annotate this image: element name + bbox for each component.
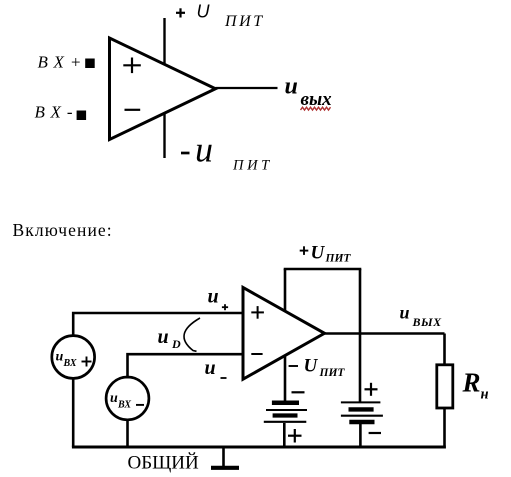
wire +V top horizontal <box>284 268 362 271</box>
svg-text:ПИТ: ПИТ <box>224 13 265 30</box>
source uВХ+ circle <box>52 336 95 379</box>
svg-text:ОБЩИЙ: ОБЩИЙ <box>128 453 200 474</box>
svg-text:ПИТ: ПИТ <box>319 367 346 379</box>
label -u ПИТ (top) <box>181 130 273 174</box>
battery GB2 (right, +Uпит supply) <box>341 402 383 422</box>
label + U ПИТ (top) <box>176 2 265 30</box>
wire resistor top <box>443 334 446 366</box>
svg-text:вых: вых <box>301 89 333 110</box>
svg-text:u: u <box>195 130 213 170</box>
label u- (inverting input) <box>205 357 227 379</box>
label u+ (non-inverting input) <box>208 286 229 311</box>
wire -V pin down from op-amp to battery GB1 <box>284 356 287 402</box>
input terminal square ВХ- <box>77 111 87 121</box>
ground symbol <box>211 447 239 468</box>
svg-text:u: u <box>285 74 298 100</box>
label u ВЫХ (output) <box>400 303 443 330</box>
wire source 2 bottom <box>126 419 129 448</box>
svg-text:U: U <box>197 2 211 22</box>
input terminal square ВХ+ <box>85 59 95 69</box>
svg-text:ПИТ: ПИТ <box>232 158 273 174</box>
op-amp A1 (bottom figure) <box>243 288 325 380</box>
svg-text:ВХ: ВХ <box>63 358 77 369</box>
label +Uпит (bottom) <box>300 243 352 265</box>
svg-text:Включение:: Включение: <box>13 220 113 240</box>
-Uпит power pin wire (top figure) <box>163 113 165 158</box>
wire bottom rail (ОБЩИЙ) <box>72 446 446 449</box>
svg-text:ВЫХ: ВЫХ <box>412 315 443 329</box>
wire resistor bottom <box>443 408 446 449</box>
label -Uпит (bottom) <box>289 356 346 380</box>
op-amp A1 symbol (top figure) <box>110 38 216 140</box>
wire u+ input (from source 1 to op-amp) <box>73 313 243 337</box>
svg-text:U: U <box>304 356 319 377</box>
battery GB1 minus label <box>292 391 305 393</box>
svg-text:u: u <box>158 326 169 348</box>
svg-text:u: u <box>208 286 219 308</box>
label u ВХ- inside circle <box>110 391 144 411</box>
source uВХ- circle <box>106 377 149 420</box>
label u вых (top output) <box>285 74 333 111</box>
svg-text:u: u <box>205 357 216 379</box>
label u ВХ+ inside circle <box>56 350 92 370</box>
wire u- input (from source 2 to op-amp) <box>128 354 244 378</box>
svg-text:ВХ: ВХ <box>117 400 131 411</box>
non-inverting input + mark (bottom) <box>251 306 264 319</box>
svg-text:u: u <box>110 391 118 406</box>
battery GB1 (left, -Uпит supply) <box>264 403 307 422</box>
output wire (bottom) <box>325 332 445 335</box>
battery GB2 plus label <box>365 383 378 396</box>
svg-text:н: н <box>481 387 489 403</box>
svg-text:U: U <box>311 243 326 264</box>
svg-text:u: u <box>400 303 410 323</box>
+Uпит power pin wire (top figure) <box>163 18 165 65</box>
wire battery GB1 bottom <box>283 423 286 447</box>
non-inverting input + mark (top figure) <box>123 58 141 74</box>
svg-text:u: u <box>56 350 64 365</box>
spellcheck squiggle under вых <box>301 107 331 110</box>
svg-text:R: R <box>462 368 481 398</box>
svg-text:ПИТ: ПИТ <box>325 253 352 265</box>
label Rн <box>462 368 489 403</box>
svg-text:ВХ-: ВХ- <box>35 103 79 122</box>
wire left rail (source 1 to bottom rail) <box>72 378 75 448</box>
wire +V pin up from op-amp <box>284 269 287 312</box>
battery GB1 plus label <box>288 429 302 443</box>
svg-text:ВХ+: ВХ+ <box>38 53 88 72</box>
wire battery GB2 bottom <box>359 424 362 447</box>
label uD (differential) <box>158 326 182 351</box>
arc for uD between inputs <box>184 318 200 351</box>
inverting input - mark (bottom) <box>251 353 262 355</box>
wire +V right drop to battery GB2 <box>359 269 362 403</box>
battery GB2 minus label <box>369 432 381 434</box>
inverting input - mark (top figure) <box>125 109 141 111</box>
load resistor Rн <box>437 365 453 408</box>
svg-text:D: D <box>171 337 181 351</box>
output wire (top figure) <box>216 87 278 89</box>
